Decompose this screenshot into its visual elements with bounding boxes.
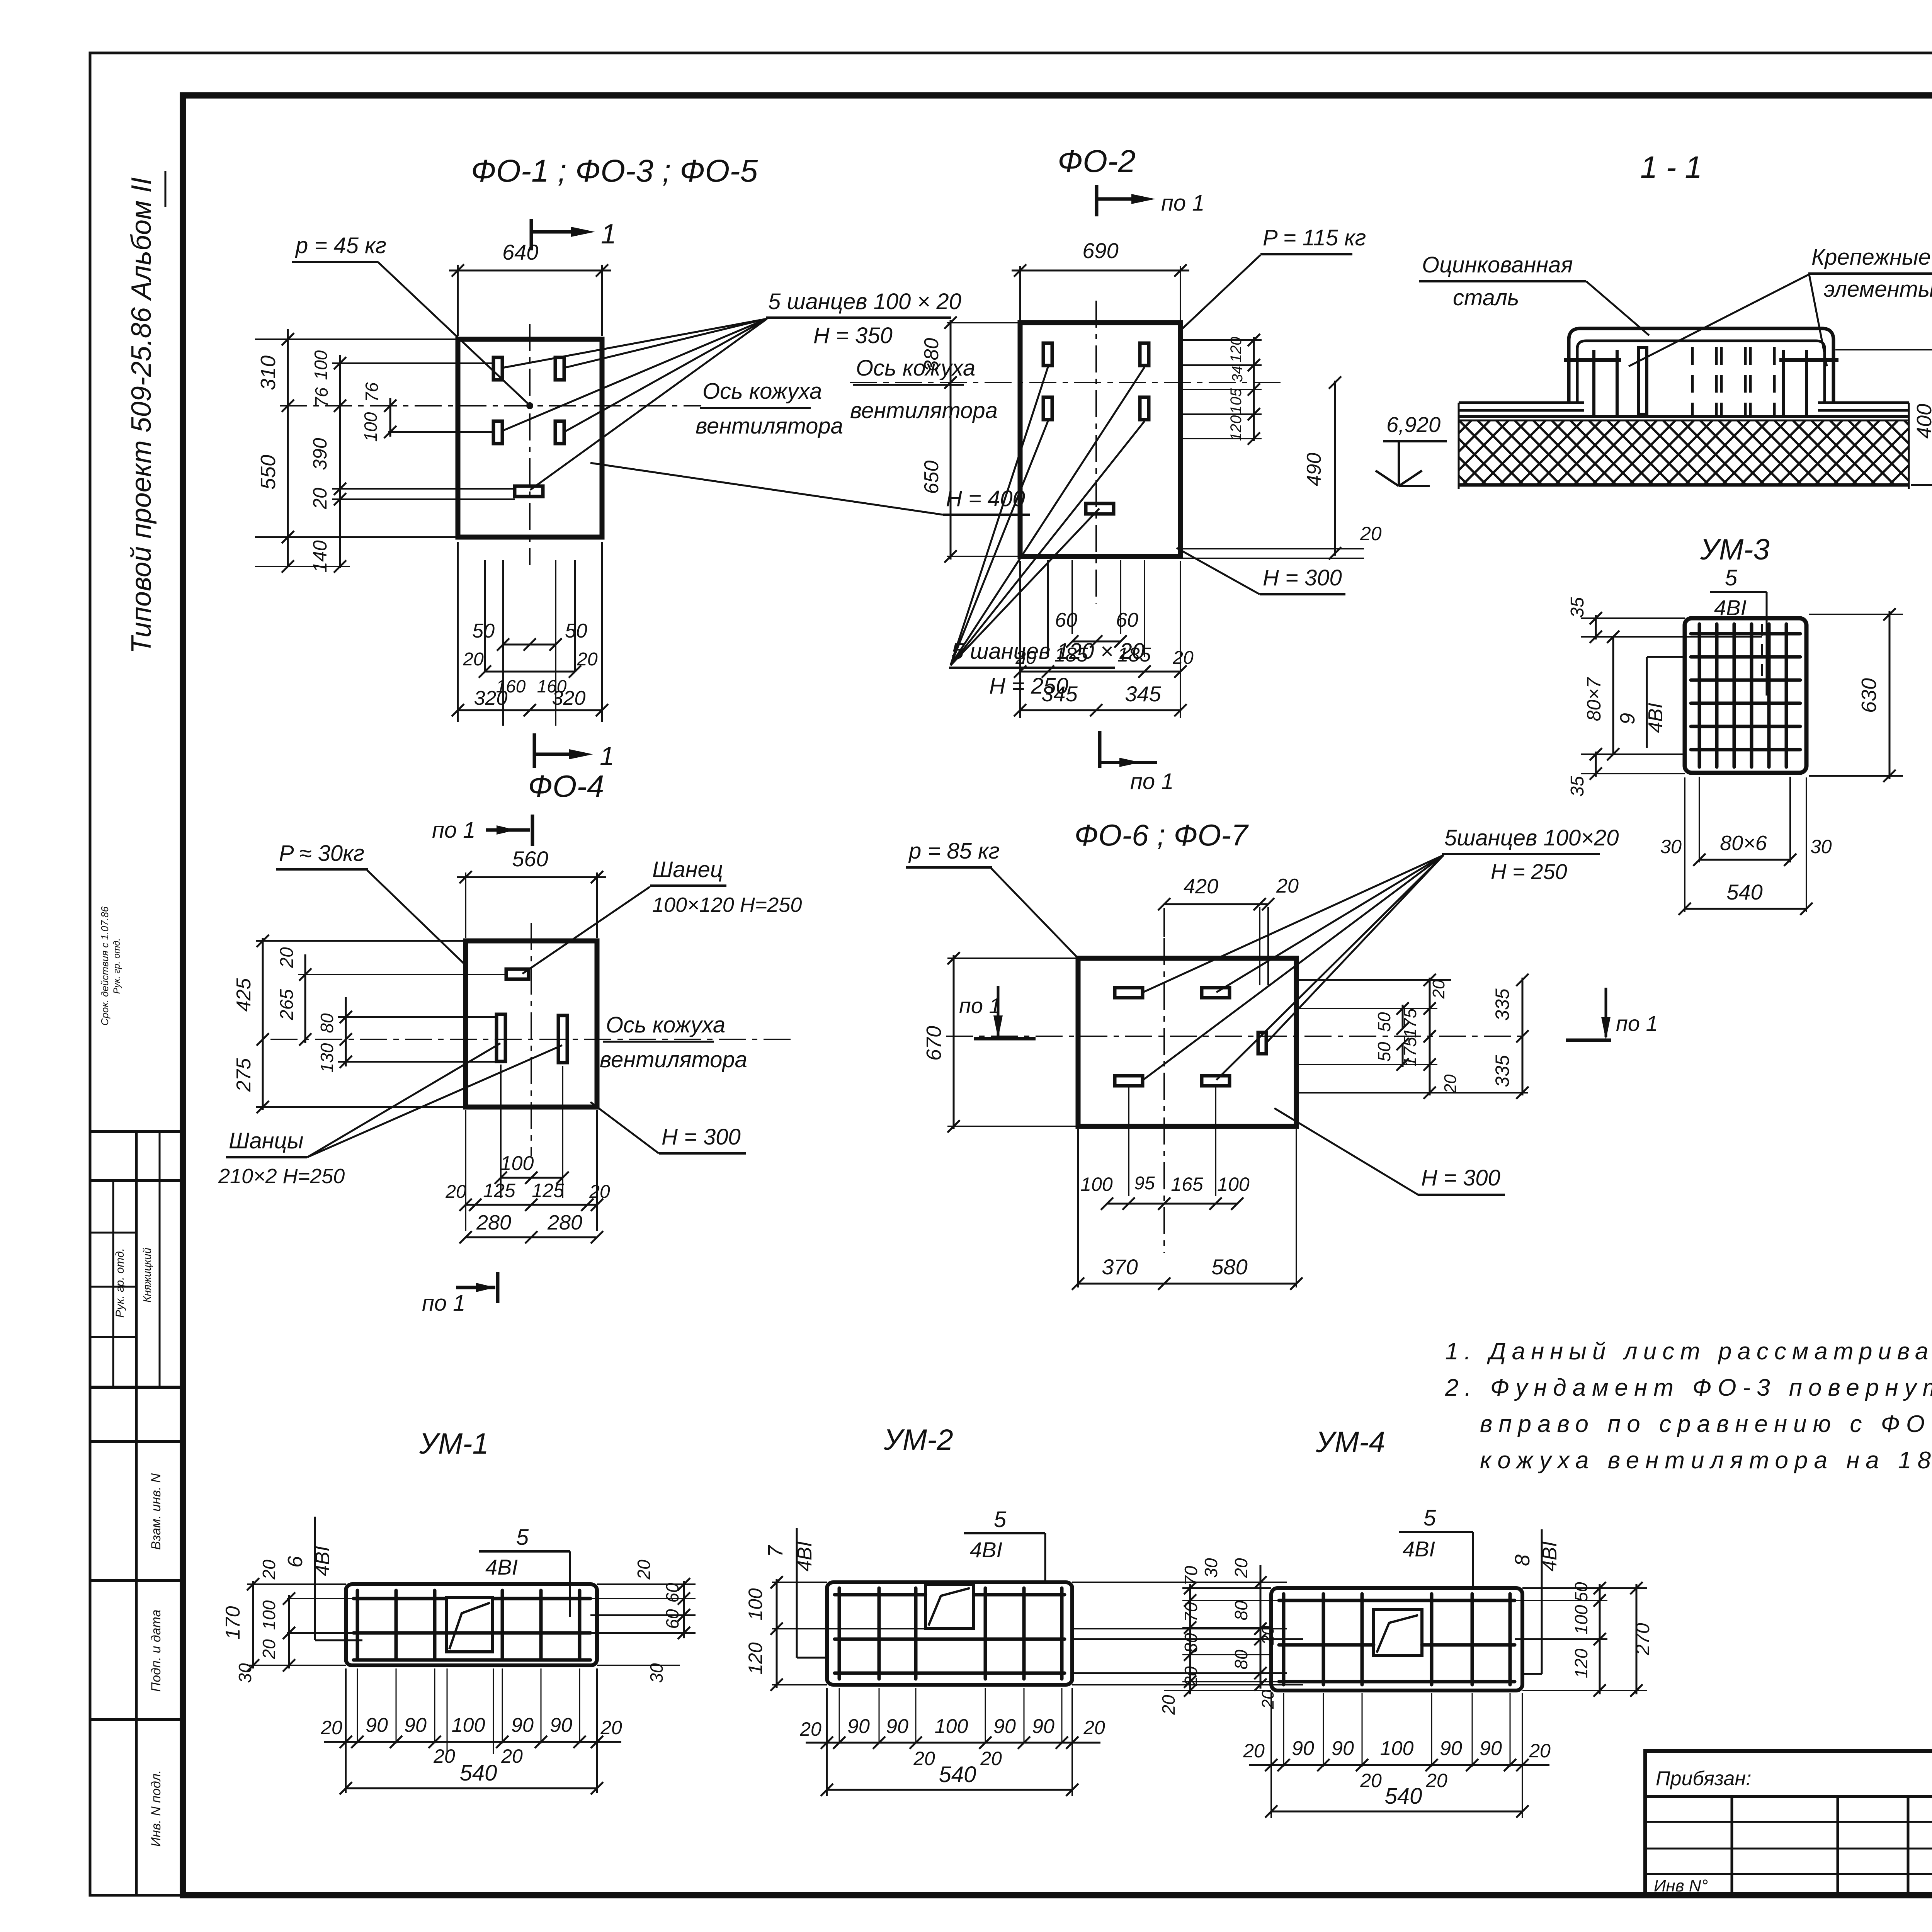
svg-text:540: 540 [460, 1760, 497, 1786]
svg-text:140: 140 [309, 540, 331, 573]
svg-text:ФО-6 ; ФО-7: ФО-6 ; ФО-7 [1074, 818, 1249, 852]
svg-text:30: 30 [646, 1663, 667, 1683]
svg-text:по 1: по 1 [422, 1291, 466, 1316]
svg-text:20: 20 [309, 488, 331, 510]
svg-text:кожуха вентилятора на 180° вле: кожуха вентилятора на 180° влево по срав… [1480, 1447, 1932, 1474]
svg-text:4ВI: 4ВI [1539, 1541, 1561, 1571]
svg-text:УМ-1: УМ-1 [419, 1427, 488, 1460]
svg-text:ФО-2: ФО-2 [1058, 144, 1136, 179]
svg-text:30: 30 [1660, 836, 1682, 857]
svg-text:20: 20 [1231, 1558, 1251, 1578]
notes text block [1445, 1338, 1932, 1474]
svg-text:20: 20 [501, 1745, 523, 1767]
svg-text:Княжицкий: Княжицкий [141, 1248, 153, 1303]
svg-text:165: 165 [1171, 1173, 1203, 1195]
svg-text:120: 120 [1571, 1648, 1591, 1678]
svg-text:20: 20 [463, 649, 484, 670]
svg-text:20: 20 [1158, 1695, 1179, 1715]
svg-text:90: 90 [847, 1715, 870, 1738]
svg-text:Крепежные: Крепежные [1811, 245, 1931, 270]
svg-text:120: 120 [1228, 337, 1245, 363]
svg-text:320: 320 [552, 687, 586, 709]
svg-text:210×2 Н=250: 210×2 Н=250 [218, 1165, 345, 1188]
svg-text:5 шанцев 100 × 20: 5 шанцев 100 × 20 [768, 289, 961, 314]
svg-text:670: 670 [922, 1026, 946, 1061]
svg-text:p = 85 кг: p = 85 кг [908, 838, 1000, 864]
svg-text:сталь: сталь [1453, 285, 1519, 310]
svg-text:280: 280 [547, 1211, 582, 1234]
svg-text:9: 9 [1616, 713, 1639, 724]
svg-text:90: 90 [1440, 1737, 1462, 1760]
svg-text:20: 20 [1425, 1770, 1447, 1791]
svg-text:20: 20 [320, 1717, 342, 1738]
view UM-1 [222, 1427, 696, 1794]
svg-text:100: 100 [259, 1600, 279, 1630]
svg-text:по 1: по 1 [1130, 769, 1174, 794]
svg-text:540: 540 [939, 1762, 976, 1787]
svg-text:20: 20 [259, 1639, 279, 1660]
svg-text:50: 50 [472, 620, 495, 642]
svg-text:30: 30 [1810, 836, 1832, 857]
svg-text:p = 45 кг: p = 45 кг [295, 233, 386, 258]
svg-text:100: 100 [935, 1715, 968, 1738]
svg-text:5: 5 [516, 1525, 529, 1550]
svg-text:30: 30 [1201, 1558, 1221, 1578]
svg-text:4ВI: 4ВI [970, 1537, 1002, 1562]
svg-text:5шанцев 100×20: 5шанцев 100×20 [1444, 825, 1619, 850]
svg-text:80: 80 [1181, 1633, 1201, 1653]
svg-text:50: 50 [1571, 1582, 1591, 1602]
svg-text:ФО-4: ФО-4 [528, 769, 604, 803]
svg-text:4ВI: 4ВI [1403, 1537, 1435, 1561]
view FO-2 [850, 144, 1382, 718]
svg-text:95: 95 [1134, 1173, 1155, 1194]
svg-text:20: 20 [799, 1718, 821, 1740]
svg-text:90: 90 [1480, 1737, 1502, 1760]
svg-text:560: 560 [512, 847, 548, 871]
svg-text:100: 100 [1380, 1737, 1414, 1760]
svg-text:20: 20 [1360, 523, 1382, 544]
svg-text:320: 320 [474, 687, 508, 709]
svg-text:390: 390 [309, 438, 331, 470]
svg-text:20: 20 [980, 1748, 1002, 1769]
svg-text:P = 115 кг: P = 115 кг [1263, 225, 1366, 250]
svg-text:30: 30 [235, 1663, 255, 1683]
svg-text:P ≈ 30кг: P ≈ 30кг [279, 841, 364, 866]
svg-text:Ось кожуха: Ось кожуха [606, 1012, 725, 1037]
svg-text:80: 80 [317, 1013, 337, 1033]
svg-text:20: 20 [1441, 1074, 1460, 1094]
svg-text:1 - 1: 1 - 1 [1640, 150, 1702, 184]
svg-text:20: 20 [913, 1748, 935, 1769]
svg-text:90: 90 [366, 1714, 388, 1736]
svg-text:по 1: по 1 [1161, 190, 1205, 216]
svg-text:20: 20 [1276, 875, 1299, 897]
svg-text:4ВI: 4ВI [1645, 703, 1667, 733]
svg-text:170: 170 [222, 1606, 244, 1640]
svg-text:20: 20 [1083, 1717, 1105, 1738]
svg-text:Инв N°: Инв N° [1654, 1876, 1708, 1895]
svg-text:5: 5 [1423, 1505, 1436, 1531]
svg-text:Ось кожуха: Ось кожуха [856, 355, 975, 381]
svg-text:60: 60 [662, 1609, 682, 1629]
svg-text:20: 20 [1181, 1666, 1201, 1687]
svg-text:550: 550 [257, 455, 280, 490]
svg-text:335: 335 [1492, 1055, 1513, 1087]
svg-text:100×120 Н=250: 100×120 Н=250 [652, 893, 802, 917]
svg-text:100: 100 [1571, 1605, 1591, 1634]
svg-text:Н = 300: Н = 300 [662, 1124, 741, 1150]
svg-text:20: 20 [1243, 1740, 1265, 1762]
svg-text:6: 6 [284, 1556, 307, 1568]
svg-text:125: 125 [483, 1180, 515, 1201]
svg-text:Типовой проект 509-25.86: Типовой проект 509-25.86 Альбом II [126, 177, 157, 654]
svg-text:100: 100 [1217, 1173, 1250, 1195]
svg-text:5: 5 [994, 1507, 1007, 1532]
rotated project title in left margin [126, 171, 165, 653]
svg-text:2. Фундамент ФО-3 повернут вок: 2. Фундамент ФО-3 повернут вокруг оси ко… [1445, 1374, 1932, 1401]
svg-text:100: 100 [311, 350, 331, 380]
svg-text:130: 130 [317, 1043, 337, 1073]
svg-text:120: 120 [745, 1642, 766, 1675]
view UM-2 [745, 1423, 1303, 1796]
svg-text:ФО-1 ; ФО-3 ; ФО-5: ФО-1 ; ФО-3 ; ФО-5 [471, 153, 758, 189]
svg-text:вентилятора: вентилятора [850, 398, 998, 423]
svg-text:1: 1 [601, 219, 616, 250]
svg-text:Срок. действия с 1.07.86: Срок. действия с 1.07.86 [99, 906, 111, 1026]
svg-text:70: 70 [1181, 1602, 1201, 1622]
svg-text:90: 90 [993, 1715, 1016, 1738]
svg-text:175: 175 [1400, 1008, 1420, 1038]
svg-text:4ВI: 4ВI [485, 1555, 518, 1579]
svg-text:Прибязан:: Прибязан: [1656, 1767, 1752, 1790]
svg-text:90: 90 [886, 1715, 908, 1738]
svg-text:20: 20 [600, 1717, 622, 1738]
svg-text:60: 60 [662, 1583, 682, 1603]
svg-text:Н = 300: Н = 300 [1263, 565, 1342, 590]
svg-text:4ВI: 4ВI [794, 1541, 816, 1571]
svg-text:35: 35 [1567, 597, 1588, 618]
svg-text:125: 125 [532, 1180, 564, 1201]
svg-text:7: 7 [764, 1545, 787, 1557]
svg-text:Н = 250: Н = 250 [1491, 859, 1567, 884]
svg-text:35: 35 [1567, 776, 1588, 797]
svg-text:6,920: 6,920 [1386, 412, 1440, 437]
svg-text:элементы: элементы [1824, 277, 1932, 302]
svg-text:Рук. гр. отд.: Рук. гр. отд. [114, 1248, 126, 1318]
view FO-6 FO-7 [906, 731, 1658, 1290]
svg-text:90: 90 [511, 1714, 534, 1736]
svg-text:105: 105 [1228, 388, 1245, 414]
svg-text:вентилятора: вентилятора [696, 413, 843, 439]
svg-text:по 1: по 1 [959, 993, 1001, 1018]
view FO-4 [218, 769, 802, 1316]
svg-text:100: 100 [1080, 1173, 1113, 1195]
svg-text:345: 345 [1125, 682, 1161, 706]
svg-text:76: 76 [362, 382, 382, 402]
svg-text:4ВI: 4ВI [311, 1546, 334, 1576]
svg-text:20: 20 [277, 947, 297, 968]
svg-text:Подп. и дата: Подп. и дата [149, 1610, 163, 1692]
svg-text:185: 185 [1117, 644, 1151, 666]
svg-text:Шанец: Шанец [652, 857, 723, 882]
svg-text:100: 100 [361, 412, 381, 442]
svg-text:90: 90 [1332, 1737, 1354, 1760]
svg-text:вправо по сравнению с ФО-1. Ф: вправо по сравнению с ФО-1. Фундамент ФО… [1480, 1411, 1932, 1437]
svg-text:Взам. инв. N: Взам. инв. N [149, 1473, 163, 1550]
svg-text:630: 630 [1857, 678, 1881, 713]
svg-text:УМ-3: УМ-3 [1700, 533, 1769, 566]
svg-text:8: 8 [1511, 1554, 1534, 1566]
svg-text:20: 20 [1360, 1770, 1382, 1791]
svg-text:280: 280 [476, 1211, 511, 1234]
svg-text:Ось кожуха: Ось кожуха [702, 379, 822, 404]
svg-text:1: 1 [600, 742, 614, 771]
svg-text:20: 20 [1172, 648, 1194, 668]
svg-text:20: 20 [259, 1560, 279, 1580]
svg-text:490: 490 [1303, 453, 1325, 486]
svg-text:100: 100 [500, 1152, 534, 1175]
svg-text:20: 20 [1259, 1690, 1277, 1709]
svg-text:Н = 350: Н = 350 [813, 323, 893, 348]
svg-text:76: 76 [311, 387, 332, 407]
svg-text:420: 420 [1184, 875, 1218, 898]
svg-text:580: 580 [1211, 1255, 1247, 1279]
svg-text:80×7: 80×7 [1583, 677, 1605, 721]
svg-text:80×6: 80×6 [1720, 832, 1767, 855]
svg-text:310: 310 [257, 355, 280, 390]
svg-text:20: 20 [1259, 1626, 1277, 1645]
svg-text:540: 540 [1385, 1784, 1422, 1809]
view UM-4 [1158, 1426, 1653, 1818]
svg-text:400: 400 [1913, 404, 1932, 439]
svg-text:5: 5 [1725, 565, 1738, 590]
svg-text:1. Данный лист рассматривать: 1. Данный лист рассматривать совместно с… [1445, 1338, 1932, 1365]
svg-text:335: 335 [1492, 988, 1513, 1021]
svg-text:60: 60 [1116, 609, 1138, 631]
svg-text:425: 425 [233, 978, 255, 1012]
svg-text:100: 100 [745, 1588, 766, 1621]
svg-text:690: 690 [1082, 238, 1118, 263]
small rotated margin notes [99, 906, 122, 1026]
svg-text:175: 175 [1400, 1037, 1420, 1066]
svg-text:Оцинкованная: Оцинкованная [1422, 252, 1573, 277]
svg-text:Инв. N подл.: Инв. N подл. [149, 1770, 163, 1847]
view FO-1 FO-3 FO-5 [255, 153, 1030, 771]
svg-text:275: 275 [233, 1058, 255, 1092]
svg-text:650: 650 [920, 461, 943, 494]
svg-text:100: 100 [452, 1714, 485, 1736]
svg-text:50: 50 [1374, 1042, 1394, 1062]
svg-text:вентилятора: вентилятора [600, 1047, 747, 1072]
svg-text:УМ-4: УМ-4 [1315, 1426, 1385, 1459]
svg-text:по 1: по 1 [432, 818, 476, 843]
svg-text:540: 540 [1726, 880, 1762, 904]
svg-text:345: 345 [1041, 682, 1078, 706]
svg-text:Шанцы: Шанцы [229, 1128, 303, 1153]
svg-text:90: 90 [1032, 1715, 1054, 1738]
svg-text:640: 640 [502, 240, 538, 264]
svg-text:50: 50 [1374, 1012, 1394, 1032]
svg-text:120: 120 [1228, 415, 1245, 441]
svg-text:70: 70 [1181, 1566, 1201, 1586]
svg-text:80: 80 [1231, 1600, 1251, 1621]
svg-text:20: 20 [634, 1560, 654, 1580]
svg-text:Рук. гр. отд.: Рук. гр. отд. [112, 938, 122, 994]
svg-text:380: 380 [920, 338, 943, 372]
svg-text:34: 34 [1230, 366, 1246, 382]
svg-text:по 1: по 1 [1616, 1011, 1658, 1036]
svg-text:185: 185 [1054, 644, 1088, 666]
section 1-1 [1376, 150, 1932, 491]
svg-text:УМ-2: УМ-2 [883, 1423, 953, 1456]
svg-text:20: 20 [433, 1745, 455, 1767]
svg-text:50: 50 [565, 620, 587, 642]
svg-text:370: 370 [1102, 1255, 1138, 1279]
svg-text:90: 90 [550, 1714, 572, 1736]
svg-text:60: 60 [1055, 609, 1077, 631]
svg-text:90: 90 [1292, 1737, 1314, 1760]
privyazan table [1645, 1751, 1932, 1895]
svg-text:20: 20 [1429, 980, 1448, 999]
view UM-3 [1567, 533, 1903, 915]
svg-text:265: 265 [277, 989, 297, 1020]
svg-text:20: 20 [445, 1182, 466, 1202]
svg-text:Н = 300: Н = 300 [1421, 1165, 1500, 1190]
svg-text:80: 80 [1231, 1650, 1251, 1670]
svg-text:270: 270 [1632, 1623, 1653, 1656]
svg-text:90: 90 [404, 1714, 427, 1736]
svg-text:20: 20 [1529, 1740, 1551, 1762]
left margin stamp table [90, 1131, 183, 1895]
